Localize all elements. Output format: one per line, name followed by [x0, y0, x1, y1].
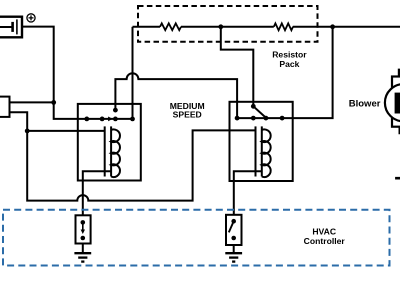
- wire J1 lower to coils: [10, 112, 105, 131]
- relay K1 contact dots: [84, 117, 135, 122]
- wire K2 coil return to S2: [234, 171, 262, 215]
- relay K2 armature pivot dot: [251, 104, 256, 109]
- resistor R1: [160, 23, 181, 30]
- HVAC controller dashed box: [3, 210, 390, 266]
- node dot resistor mid tap: [218, 24, 223, 29]
- switch S2 box: [226, 215, 242, 245]
- wire resistor pack rail: [133, 26, 161, 28]
- wire resistor left leg down to K1 contact: [132, 27, 134, 119]
- label HVAC controller: [304, 227, 346, 247]
- label medium speed: [170, 101, 205, 120]
- svg-text:SPEED: SPEED: [173, 110, 202, 120]
- svg-text:Pack: Pack: [279, 59, 299, 69]
- motor M letter: [395, 93, 400, 114]
- switch S2 (open): [229, 219, 236, 240]
- wire rail to blower: [293, 26, 400, 28]
- switch S1 (closed): [81, 220, 86, 240]
- relay K2 coil: [256, 126, 271, 177]
- node dot coil tee: [25, 129, 30, 134]
- resistor R2: [274, 23, 293, 30]
- blower motor M1: [385, 84, 400, 121]
- wire K1 armature to K2 common (with hop over vertical): [115, 73, 237, 118]
- wire S1 to ground: [82, 244, 84, 253]
- relay K2 contact dots: [235, 116, 285, 121]
- blower motor housing: [392, 70, 400, 133]
- label resistor pack: [272, 49, 307, 68]
- wire mid tap to relay K2 pivot: [221, 27, 254, 107]
- battery B+ box: [0, 17, 22, 38]
- svg-text:Blower: Blower: [349, 99, 381, 110]
- wire coil bus to right relay coil (with hop over S1 lead): [27, 130, 255, 200]
- ground G2: [225, 253, 242, 261]
- ground G3 (clipped): [395, 177, 400, 180]
- relay K1 coil: [105, 126, 120, 177]
- switch S1 box: [76, 215, 91, 243]
- wire K1 coil return to S1: [83, 171, 111, 215]
- connector J1 (left edge box): [0, 97, 10, 117]
- wire rail mid: [181, 26, 274, 28]
- node dot feed tee: [51, 100, 56, 105]
- resistor pack dashed box: [138, 6, 318, 42]
- battery cell symbol: [0, 19, 17, 34]
- wire J1 upper to feed: [10, 101, 54, 103]
- plus terminal marker: [27, 14, 35, 22]
- svg-text:HVAC: HVAC: [312, 227, 336, 237]
- relay K1 contact arrow: [108, 117, 113, 122]
- wire blower tap to K2 output: [237, 27, 333, 118]
- relay K2 box: [230, 102, 293, 181]
- ground G1: [74, 253, 91, 261]
- svg-text:Controller: Controller: [304, 236, 346, 246]
- relay K1 box: [78, 104, 141, 181]
- wire S2 to ground: [233, 245, 235, 252]
- relay K2 armature (open): [253, 106, 264, 116]
- relay K1 armature pivot dot: [113, 108, 118, 113]
- node dot blower tap: [330, 24, 335, 29]
- wire battery feed to left relay common: [22, 27, 133, 119]
